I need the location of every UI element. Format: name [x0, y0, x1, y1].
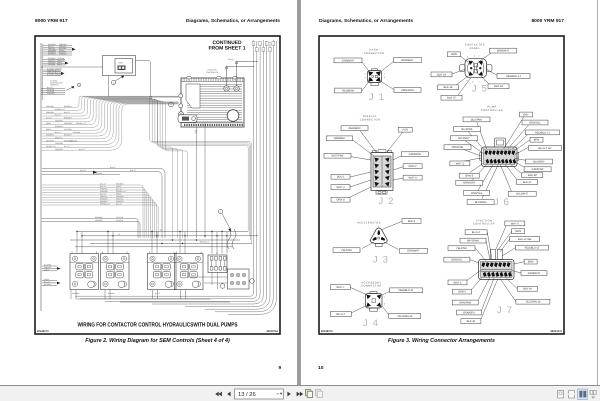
J5 wire labels — [448, 52, 461, 57]
connector J7 body — [479, 250, 515, 280]
connector J4 leader wires — [351, 288, 367, 295]
connector J1 leader wires — [362, 62, 369, 72]
J4 wire labels — [330, 285, 350, 290]
connector J2 body — [371, 150, 393, 195]
harness crossing symbol — [227, 229, 236, 249]
contactor P2 — [101, 252, 130, 290]
wire pair lower — [42, 219, 138, 239]
layout icon: continuous — [568, 391, 575, 399]
horn relay cluster — [228, 269, 250, 289]
right window edge line — [597, 0, 598, 386]
left page header right — [160, 19, 280, 24]
layout icon: two-page (selected) — [578, 389, 588, 400]
J3 wire labels — [402, 219, 421, 224]
coil drop wires — [76, 232, 78, 254]
contactor F1 — [148, 252, 177, 290]
aux lead group 2 — [42, 280, 57, 282]
controller label plate — [186, 84, 200, 108]
right page number — [318, 366, 323, 371]
connector J5 leader wires — [459, 55, 468, 62]
wire: BLK 37 drop — [196, 127, 198, 238]
layout icon: two-page continuous — [590, 391, 596, 399]
J1 wire labels — [334, 58, 362, 63]
layout icon: single page — [558, 391, 564, 399]
connector J3 body — [370, 228, 387, 246]
connector J2 leader wires — [360, 131, 376, 153]
right page header left — [319, 19, 413, 24]
toolbar prev-view icon — [306, 390, 313, 398]
sheet marker circle B — [169, 102, 174, 107]
fuse block FB1 — [208, 255, 227, 273]
wire group: key switch leads — [43, 59, 65, 61]
right page header right — [444, 19, 564, 24]
controller bottom terminal strip — [181, 122, 244, 124]
toolbar last-page button — [297, 392, 300, 397]
wire group: battery harness leads — [43, 44, 72, 46]
wire: controller B+ riser — [227, 67, 255, 86]
connector J7 leader wires — [487, 232, 492, 259]
toolbar next-view icon (disabled) — [316, 390, 323, 398]
contactor P1 — [70, 252, 99, 290]
bottom toolbar — [0, 385, 600, 401]
wire group: contactor coil leads — [42, 185, 143, 238]
toolbar first-page button — [215, 392, 303, 397]
sheet marker circle C — [218, 209, 222, 213]
svg-text:13 / 26: 13 / 26 — [238, 392, 256, 398]
terminal B- — [234, 86, 239, 91]
left page header left — [35, 19, 68, 24]
connector J4 body — [366, 292, 383, 312]
connector J6 leader wires — [477, 123, 487, 151]
connector J3 leader wires — [382, 222, 402, 230]
connector J5 body — [460, 59, 493, 78]
wire pair: long feeder with arrow — [42, 169, 165, 239]
toolbar prev-page button — [227, 392, 230, 397]
wire: main left harness bus — [40, 43, 42, 311]
toolbar next-page button — [287, 392, 290, 397]
controller heatsink hatch — [187, 84, 242, 122]
left page number — [279, 366, 282, 371]
sheet marker circle 13 — [77, 83, 80, 86]
connector J1 body — [368, 69, 382, 86]
page gutter divider — [297, 0, 301, 386]
controller capacitor C1 — [227, 110, 239, 122]
contactor distribution bus wires — [77, 231, 248, 233]
J2 wire labels — [341, 126, 368, 131]
J6 wire labels — [463, 117, 490, 122]
wire bundle: nested arcs from harness list to top band — [42, 96, 179, 107]
controller left terminals — [179, 94, 183, 98]
sheet marker circle A — [111, 80, 115, 84]
wire: links into relay cluster — [190, 276, 228, 278]
junction dots — [76, 231, 77, 232]
contactor R1 — [175, 252, 204, 290]
toolbar page-number box — [235, 389, 284, 399]
wire: lower return bus — [76, 298, 210, 300]
return wires below contactors — [70, 290, 72, 299]
right figure caption — [319, 338, 564, 344]
aux lead group 1 — [42, 265, 57, 267]
schematic border frame left page — [35, 36, 280, 334]
right side harness bundle to sheet 1 — [75, 40, 254, 296]
wire: controller B- riser — [237, 62, 259, 86]
wire fan to sheet marker 13 — [41, 88, 65, 90]
wire: relay box to band — [136, 61, 151, 97]
controller fuse block — [178, 115, 197, 123]
relay box K1 (upper middle) — [103, 56, 136, 76]
left figure caption — [35, 338, 280, 344]
schematic border frame right page — [319, 36, 564, 334]
J7 wire labels — [465, 230, 487, 235]
terminal B+ — [224, 86, 229, 91]
wire: bus to relay box — [41, 66, 103, 68]
wire group: lighting leads — [43, 69, 61, 71]
connector J6 body — [480, 138, 519, 167]
